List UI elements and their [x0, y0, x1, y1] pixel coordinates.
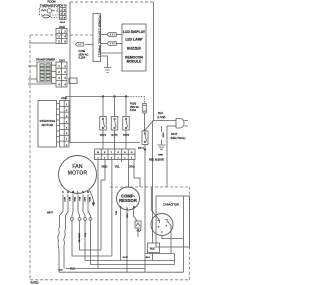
svg-text:OLP: OLP [137, 231, 142, 233]
ring terminal 1 [71, 218, 74, 221]
lead brn down [88, 195, 91, 218]
svg-text:(LIVE): (LIVE) [158, 115, 166, 119]
svg-text:RED SLEEVE: RED SLEEVE [149, 158, 164, 161]
fan motor terminal letters [62, 190, 89, 194]
svg-text:MOTOR: MOTOR [68, 170, 88, 176]
connector CN-A [59, 6, 66, 20]
power plug P1 [154, 119, 189, 129]
comp lead C [120, 208, 122, 261]
lead blk wavy [64, 195, 68, 269]
svg-text:R: R [87, 190, 89, 194]
ring terminal 4 [89, 218, 92, 221]
wire strip to display low [101, 52, 123, 54]
svg-text:H: H [158, 227, 160, 229]
node dot 2 [113, 95, 115, 97]
strip lead 3 down [111, 160, 113, 257]
strip lead 6 down [134, 160, 140, 188]
strip lead 2 down [101, 160, 105, 251]
relay RY74 [138, 121, 153, 151]
svg-text:4: 4 [64, 83, 66, 86]
wire cap bottom [162, 236, 184, 239]
transformer T1 [37, 62, 52, 82]
svg-text:FAN: FAN [72, 164, 83, 170]
svg-text:8: 8 [66, 145, 68, 147]
svg-text:RED: RED [126, 214, 128, 219]
svg-text:CAPACITOR: CAPACITOR [163, 203, 179, 207]
wire transformer left 1 [28, 65, 37, 67]
wire cap right 2 [183, 196, 185, 272]
svg-text:2: 2 [64, 30, 66, 33]
main PCB outline [70, 2, 154, 143]
svg-text:RY73: RY73 [112, 134, 119, 137]
svg-text:4: 4 [58, 83, 60, 86]
svg-text:3: 3 [58, 35, 60, 38]
wire transformer left 2 [28, 78, 37, 80]
comp lead R to OLP [134, 208, 138, 221]
wire relay4 down [144, 150, 146, 273]
svg-text:POWER CONTROL PWB(1): POWER CONTROL PWB(1) [97, 16, 101, 57]
lead gry down [83, 195, 85, 218]
svg-text:1: 1 [97, 157, 99, 159]
svg-text:F: F [166, 226, 168, 228]
bottom run y268 [66, 268, 146, 270]
svg-text:RY72: RY72 [100, 134, 107, 137]
thermistor dashed box [40, 7, 59, 15]
relay RY73 [111, 97, 118, 150]
connector strip CN-M [95, 149, 136, 160]
node dot 3 [125, 95, 127, 97]
svg-text:(NEUTRAL): (NEUTRAL) [171, 136, 186, 140]
fan motor M1 [59, 156, 97, 194]
svg-text:7: 7 [66, 139, 68, 141]
svg-text:3: 3 [111, 157, 113, 159]
grn branch [158, 126, 166, 156]
lead red down [72, 195, 73, 218]
fuse F2 label [130, 104, 139, 113]
svg-text:BLK: BLK [114, 211, 116, 216]
wire transformer bottom [28, 83, 52, 85]
svg-text:S: S [82, 190, 84, 194]
svg-text:6: 6 [131, 157, 133, 159]
wire ladder louver to CN-L [57, 104, 60, 143]
svg-text:YEL: YEL [115, 164, 121, 168]
connector plug CN-P left [76, 43, 94, 47]
capacitor box [156, 196, 190, 247]
svg-text:RED: RED [102, 164, 108, 168]
svg-text:BUZZER: BUZZER [127, 47, 141, 51]
svg-text:1: 1 [58, 65, 60, 68]
svg-text:GRN: GRN [161, 133, 163, 138]
svg-text:4: 4 [118, 157, 120, 159]
plug labels [158, 111, 186, 140]
svg-text:M: M [72, 190, 74, 194]
svg-text:6: 6 [66, 133, 68, 135]
svg-text:5: 5 [58, 40, 60, 43]
svg-text:WHT: WHT [47, 211, 53, 215]
svg-text:5: 5 [124, 157, 126, 159]
connector CN-L [60, 97, 70, 147]
svg-text:CN-R: CN-R [60, 22, 66, 24]
strip lead 1 down [97, 160, 99, 269]
wire thermistor to CN-A [51, 11, 60, 18]
svg-text:GRN/YEL: GRN/YEL [78, 233, 80, 243]
svg-text:LED LAMP: LED LAMP [125, 38, 143, 42]
svg-text:BLK: BLK [83, 233, 85, 238]
boundary dash bottom [30, 279, 190, 281]
wire transformer to CN-C rungs [52, 65, 57, 84]
svg-text:4: 4 [64, 35, 66, 38]
ring terminal 3 [84, 218, 87, 221]
svg-text:2: 2 [58, 71, 60, 74]
svg-text:BLK: BLK [59, 270, 64, 272]
svg-text:1: 1 [58, 30, 60, 33]
vertical control strip box U1 [93, 14, 101, 62]
svg-text:250V AC: 250V AC [130, 106, 139, 109]
svg-text:MOTOR: MOTOR [42, 123, 54, 127]
comp lead labels [114, 211, 127, 219]
bottom run y271 [59, 271, 184, 273]
bottom run y253 [145, 253, 175, 255]
svg-text:1: 1 [66, 104, 68, 106]
wire y187 to cap [166, 126, 168, 187]
svg-text:TRANSFORMER: TRANSFORMER [36, 59, 56, 62]
svg-text:3: 3 [58, 77, 60, 80]
svg-text:C: C [161, 232, 163, 234]
lead wht wavy [58, 195, 63, 273]
boundary dash mid horizontal [110, 186, 190, 188]
wire cap right 1 [168, 222, 171, 254]
svg-text:2: 2 [104, 157, 106, 159]
svg-text:BLK: BLK [146, 257, 151, 259]
fan motor lead labels vertical [63, 197, 90, 203]
wire color labels [102, 164, 135, 168]
wire boundary to CN-B [29, 42, 56, 44]
ring terminal 2 [78, 218, 81, 221]
svg-text:FUSE: FUSE [130, 104, 137, 106]
connector plug CN-1 [101, 33, 123, 37]
svg-text:LCD DISPLAY: LCD DISPLAY [123, 30, 146, 34]
overload protector OLP [135, 221, 142, 237]
thermistor TH1 [41, 9, 55, 14]
strip lead 4 down [121, 160, 123, 163]
ground on PCB [101, 56, 112, 73]
boundary dash top [30, 34, 93, 36]
svg-text:H: H [67, 190, 69, 194]
svg-text:CN-S: CN-S [61, 97, 67, 100]
relay RY72 [100, 97, 107, 150]
boundary dash right [189, 187, 191, 280]
sensor thermistor label [40, 0, 61, 7]
relay RY76 [123, 97, 130, 150]
svg-text:2: 2 [64, 71, 66, 74]
fuse F2 [143, 104, 147, 131]
strip lead comp top [128, 160, 130, 188]
svg-text:MODULE: MODULE [127, 59, 142, 63]
node dot 1 [102, 95, 104, 97]
boundary dash left [30, 35, 190, 280]
svg-text:6: 6 [64, 40, 66, 43]
wire live down [152, 121, 154, 244]
blk tag box [123, 243, 160, 261]
svg-text:5: 5 [66, 127, 68, 129]
svg-text:W: W [97, 152, 99, 154]
compressor M2 [117, 187, 140, 210]
svg-text:3.15A: 3.15A [130, 109, 136, 112]
connector CN-B [56, 26, 67, 44]
svg-text:WHT: WHT [123, 257, 129, 259]
svg-text:BLK: BLK [150, 246, 155, 250]
svg-text:GRN: GRN [158, 154, 163, 156]
fuse F1 label [79, 50, 89, 60]
svg-text:1: 1 [64, 65, 66, 68]
capacitor C1 [151, 214, 173, 236]
louver motor box [38, 101, 57, 148]
comp lead S [126, 210, 128, 272]
thermistor TH2 [43, 15, 51, 18]
svg-text:RY71: RY71 [138, 148, 144, 150]
svg-text:RATED: RATED [31, 282, 39, 285]
connector CN-C [56, 59, 67, 87]
svg-text:C: C [62, 190, 64, 194]
svg-text:3: 3 [64, 77, 66, 80]
svg-text:RESSOR: RESSOR [119, 198, 137, 203]
lead stub blob [90, 191, 94, 203]
wire cap to corner [174, 254, 176, 265]
wire bus to CN-L [65, 97, 67, 101]
display unit box [122, 24, 146, 71]
svg-text:RY76: RY76 [123, 134, 130, 137]
bus wire on PCB [66, 96, 128, 98]
part on PCB edge [69, 78, 77, 84]
connector plug CN-2 [101, 42, 123, 46]
lead blu down [78, 195, 80, 218]
wire diag to capacitor [151, 188, 160, 221]
svg-text:3.15A: 3.15A [79, 57, 86, 60]
lead labels vertical low [78, 233, 86, 243]
